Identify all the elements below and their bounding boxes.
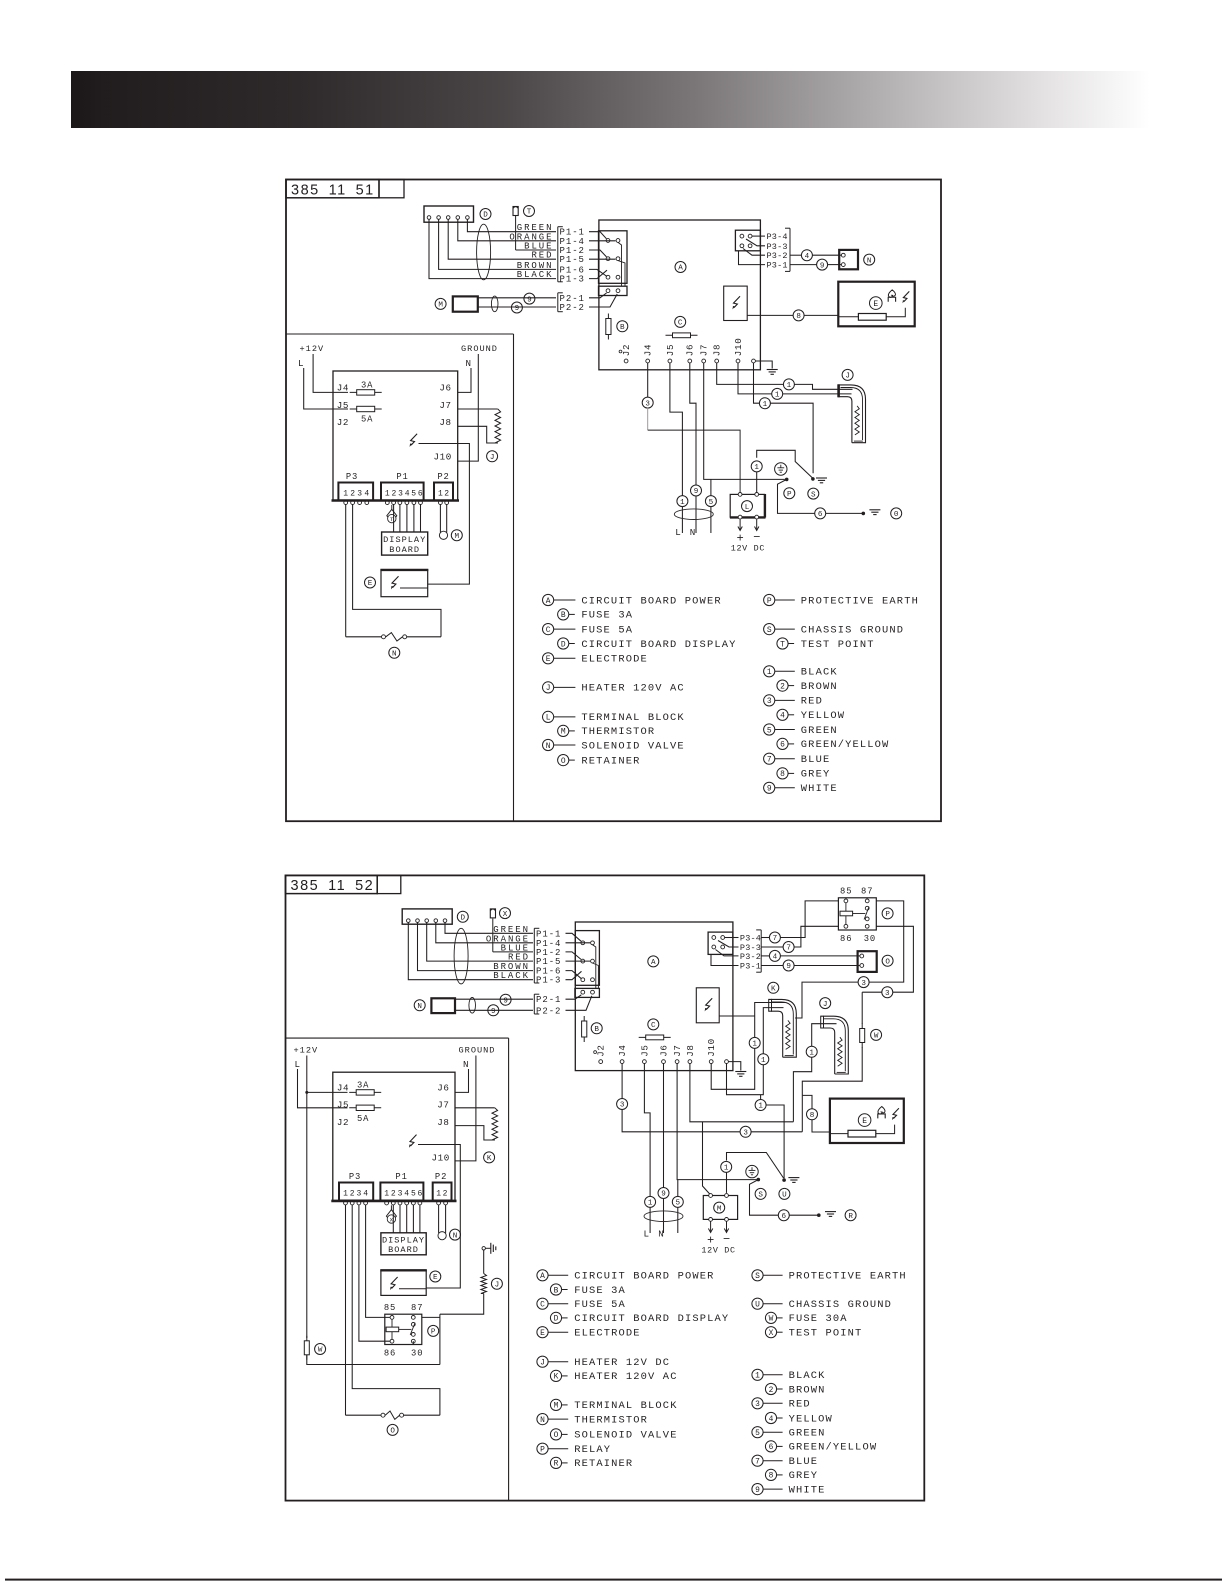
svg-text:GREEN: GREEN <box>801 725 838 737</box>
svg-text:9: 9 <box>767 785 772 794</box>
svg-text:O: O <box>885 958 890 966</box>
svg-text:1: 1 <box>438 489 443 498</box>
svg-text:J2: J2 <box>337 417 349 428</box>
svg-text:8: 8 <box>780 770 785 779</box>
svg-text:J: J <box>490 454 495 462</box>
svg-text:1: 1 <box>758 1103 763 1111</box>
svg-text:9: 9 <box>503 997 508 1005</box>
svg-text:J4: J4 <box>337 1082 349 1093</box>
svg-text:J4: J4 <box>643 344 654 356</box>
svg-text:9: 9 <box>694 488 699 496</box>
svg-text:J4: J4 <box>337 382 349 393</box>
svg-text:RED: RED <box>789 1399 811 1411</box>
svg-text:N: N <box>466 358 472 369</box>
svg-text:GREEN/YELLOW: GREEN/YELLOW <box>789 1442 878 1454</box>
svg-text:T: T <box>527 209 532 217</box>
svg-text:P2-1: P2-1 <box>536 995 561 1005</box>
svg-text:1: 1 <box>648 1200 653 1208</box>
svg-text:1: 1 <box>724 1165 729 1173</box>
svg-text:5A: 5A <box>361 415 373 425</box>
svg-text:J: J <box>823 1001 828 1009</box>
svg-text:WHITE: WHITE <box>789 1484 826 1496</box>
svg-text:P1: P1 <box>395 1172 407 1182</box>
svg-text:1: 1 <box>343 489 348 498</box>
svg-text:3: 3 <box>398 489 403 498</box>
svg-text:2: 2 <box>391 489 396 498</box>
svg-text:BLACK: BLACK <box>493 971 530 981</box>
svg-text:GREY: GREY <box>801 769 831 781</box>
svg-text:K: K <box>487 1155 492 1163</box>
svg-text:BLUE: BLUE <box>789 1456 819 1468</box>
svg-text:J5: J5 <box>665 344 676 356</box>
svg-text:C: C <box>678 320 683 328</box>
svg-text:1: 1 <box>809 1049 814 1057</box>
svg-text:N: N <box>546 742 551 751</box>
svg-text:5: 5 <box>755 1429 760 1438</box>
svg-text:8: 8 <box>769 1472 774 1481</box>
svg-text:5: 5 <box>676 1200 681 1208</box>
svg-text:E: E <box>546 655 551 664</box>
svg-text:385 11 52: 385 11 52 <box>291 878 375 894</box>
svg-text:TERMINAL BLOCK: TERMINAL BLOCK <box>581 712 684 724</box>
svg-text:P1-3: P1-3 <box>560 275 585 285</box>
svg-text:3: 3 <box>357 489 362 498</box>
svg-text:3: 3 <box>861 980 866 988</box>
svg-text:J6: J6 <box>685 344 696 356</box>
svg-text:5A: 5A <box>357 1114 369 1124</box>
svg-text:5: 5 <box>411 489 416 498</box>
svg-text:2: 2 <box>444 489 449 498</box>
svg-text:S: S <box>767 626 772 635</box>
svg-text:P2: P2 <box>437 472 449 482</box>
svg-text:P: P <box>885 911 890 919</box>
svg-text:PROTECTIVE EARTH: PROTECTIVE EARTH <box>789 1271 907 1283</box>
svg-text:BLACK: BLACK <box>517 270 554 280</box>
svg-text:X: X <box>769 1329 774 1338</box>
svg-text:N: N <box>540 1416 545 1425</box>
svg-text:D: D <box>461 914 466 922</box>
svg-text:C: C <box>540 1301 545 1310</box>
svg-text:M: M <box>561 728 566 737</box>
svg-text:J7: J7 <box>439 400 451 411</box>
svg-text:5: 5 <box>411 1189 416 1198</box>
svg-text:T: T <box>780 640 785 649</box>
svg-text:A: A <box>651 959 656 967</box>
svg-text:P2-2: P2-2 <box>560 303 585 313</box>
svg-text:J8: J8 <box>439 417 451 428</box>
svg-text:3: 3 <box>645 400 650 408</box>
svg-text:RED: RED <box>801 696 823 708</box>
svg-text:1: 1 <box>763 401 768 409</box>
svg-text:1: 1 <box>384 1189 389 1198</box>
svg-text:+: + <box>737 531 744 545</box>
svg-text:FUSE 5A: FUSE 5A <box>581 624 633 636</box>
svg-text:GROUND: GROUND <box>461 344 498 354</box>
svg-text:HEATER 12V DC: HEATER 12V DC <box>574 1357 670 1369</box>
svg-text:J7: J7 <box>437 1100 449 1111</box>
svg-text:7: 7 <box>786 945 791 953</box>
svg-text:D: D <box>483 212 488 220</box>
svg-text:U: U <box>755 1301 760 1310</box>
svg-text:J7: J7 <box>672 1044 683 1056</box>
svg-text:N: N <box>690 527 696 538</box>
svg-text:FUSE 30A: FUSE 30A <box>789 1313 848 1325</box>
svg-text:9: 9 <box>755 1486 760 1495</box>
svg-text:L: L <box>546 714 551 723</box>
svg-text:8: 8 <box>796 313 801 321</box>
svg-text:J10: J10 <box>432 1152 450 1163</box>
svg-text:M: M <box>455 533 460 541</box>
svg-text:P3-4: P3-4 <box>767 232 788 242</box>
svg-text:P1-3: P1-3 <box>536 976 561 986</box>
svg-text:P3: P3 <box>346 472 358 482</box>
svg-text:9: 9 <box>820 262 825 270</box>
svg-text:E: E <box>540 1329 545 1338</box>
svg-text:P2: P2 <box>435 1172 447 1182</box>
svg-text:385 11 51: 385 11 51 <box>291 182 375 198</box>
svg-text:7: 7 <box>773 935 778 943</box>
svg-text:M: M <box>717 1205 722 1213</box>
svg-text:P: P <box>767 597 772 606</box>
svg-text:CIRCUIT BOARD POWER: CIRCUIT BOARD POWER <box>574 1271 714 1283</box>
svg-text:BROWN: BROWN <box>801 681 838 693</box>
svg-text:3: 3 <box>755 1400 760 1409</box>
svg-text:TERMINAL BLOCK: TERMINAL BLOCK <box>574 1400 677 1412</box>
svg-text:BLUE: BLUE <box>801 754 831 766</box>
svg-text:3: 3 <box>398 1189 403 1198</box>
svg-text:RETAINER: RETAINER <box>574 1458 633 1470</box>
svg-text:85: 85 <box>840 886 852 896</box>
svg-text:B: B <box>620 324 625 332</box>
svg-text:N: N <box>417 1003 422 1011</box>
svg-text:P3-1: P3-1 <box>740 962 761 972</box>
svg-text:6: 6 <box>782 1213 787 1221</box>
svg-text:X: X <box>503 911 508 919</box>
svg-text:6: 6 <box>417 1189 422 1198</box>
svg-text:2: 2 <box>350 1189 355 1198</box>
svg-text:GREEN: GREEN <box>493 925 530 935</box>
svg-text:9: 9 <box>491 1008 496 1016</box>
svg-text:87: 87 <box>861 886 873 896</box>
svg-text:6: 6 <box>418 489 423 498</box>
svg-text:RETAINER: RETAINER <box>581 755 640 767</box>
svg-text:8: 8 <box>810 1112 815 1120</box>
svg-text:A: A <box>678 265 683 273</box>
svg-text:C: C <box>546 626 551 635</box>
svg-text:J8: J8 <box>712 344 723 356</box>
svg-text:P1: P1 <box>396 472 408 482</box>
svg-text:DISPLAY: DISPLAY <box>383 535 426 545</box>
svg-text:4: 4 <box>780 712 785 721</box>
svg-text:GREY: GREY <box>789 1470 819 1482</box>
svg-text:6: 6 <box>780 741 785 750</box>
svg-text:4: 4 <box>404 1189 409 1198</box>
svg-text:M: M <box>554 1402 559 1411</box>
svg-text:TEST POINT: TEST POINT <box>801 639 875 651</box>
svg-text:C: C <box>651 1022 656 1030</box>
svg-text:12V DC: 12V DC <box>731 544 765 554</box>
svg-text:+: + <box>707 1233 714 1247</box>
svg-text:CIRCUIT BOARD DISPLAY: CIRCUIT BOARD DISPLAY <box>574 1313 729 1325</box>
svg-text:6: 6 <box>818 511 823 519</box>
svg-text:P3-2: P3-2 <box>740 952 761 962</box>
svg-text:4: 4 <box>773 954 778 962</box>
svg-text:5: 5 <box>709 499 714 507</box>
svg-text:D: D <box>554 1315 559 1324</box>
svg-text:P: P <box>787 491 792 499</box>
svg-text:DISPLAY: DISPLAY <box>382 1236 425 1246</box>
svg-text:BLACK: BLACK <box>789 1370 826 1382</box>
svg-text:3A: 3A <box>361 381 373 391</box>
svg-text:1: 1 <box>752 1041 757 1049</box>
svg-text:4: 4 <box>364 489 369 498</box>
svg-text:SOLENOID VALVE: SOLENOID VALVE <box>581 740 684 752</box>
svg-text:CHASSIS GROUND: CHASSIS GROUND <box>789 1299 892 1311</box>
svg-text:J6: J6 <box>658 1044 669 1056</box>
svg-text:L: L <box>295 1059 301 1070</box>
svg-text:J6: J6 <box>439 382 451 393</box>
svg-text:2: 2 <box>769 1386 774 1395</box>
svg-text:K: K <box>771 986 776 994</box>
svg-text:P1-1: P1-1 <box>536 929 561 939</box>
svg-text:RELAY: RELAY <box>574 1444 611 1456</box>
svg-text:L: L <box>675 527 681 538</box>
svg-text:BROWN: BROWN <box>789 1384 826 1396</box>
svg-text:A: A <box>540 1272 545 1281</box>
svg-text:CHASSIS GROUND: CHASSIS GROUND <box>801 624 904 636</box>
svg-text:5: 5 <box>767 726 772 735</box>
svg-text:3A: 3A <box>357 1081 369 1091</box>
svg-text:7: 7 <box>767 756 772 765</box>
svg-text:R: R <box>554 1460 559 1469</box>
svg-text:THERMISTOR: THERMISTOR <box>581 726 655 738</box>
svg-text:7: 7 <box>755 1458 760 1467</box>
svg-text:M: M <box>438 302 443 310</box>
svg-text:1: 1 <box>436 1189 441 1198</box>
svg-text:9: 9 <box>786 963 791 971</box>
svg-text:J2: J2 <box>621 344 632 356</box>
svg-text:30: 30 <box>411 1348 423 1358</box>
svg-text:RED: RED <box>531 251 553 261</box>
svg-text:ELECTRODE: ELECTRODE <box>581 654 647 666</box>
svg-text:J: J <box>495 1281 500 1289</box>
svg-text:YELLOW: YELLOW <box>801 710 845 722</box>
svg-text:L: L <box>644 1228 650 1239</box>
svg-text:P3-4: P3-4 <box>740 934 761 944</box>
svg-text:1: 1 <box>343 1189 348 1198</box>
svg-text:J10: J10 <box>706 1038 717 1057</box>
svg-text:GREEN: GREEN <box>789 1428 826 1440</box>
svg-text:CIRCUIT BOARD POWER: CIRCUIT BOARD POWER <box>581 595 721 607</box>
svg-text:2: 2 <box>780 682 785 691</box>
svg-text:P3-1: P3-1 <box>767 261 788 271</box>
svg-text:PROTECTIVE EARTH: PROTECTIVE EARTH <box>801 595 919 607</box>
svg-text:N: N <box>867 257 872 265</box>
svg-text:J5: J5 <box>639 1044 650 1056</box>
svg-text:BLACK: BLACK <box>801 667 838 679</box>
svg-text:E: E <box>433 1274 438 1282</box>
svg-text:−: − <box>753 530 760 544</box>
svg-text:N: N <box>658 1228 664 1239</box>
svg-text:87: 87 <box>411 1303 423 1313</box>
svg-text:RED: RED <box>508 953 530 963</box>
svg-text:86: 86 <box>840 934 852 944</box>
svg-text:BOARD: BOARD <box>388 1245 419 1255</box>
svg-text:A: A <box>546 597 551 606</box>
svg-text:GROUND: GROUND <box>459 1046 496 1056</box>
svg-text:W: W <box>318 1347 323 1355</box>
svg-text:J10: J10 <box>733 338 744 357</box>
svg-text:6: 6 <box>769 1443 774 1452</box>
svg-text:O: O <box>390 1428 395 1436</box>
svg-text:P2-2: P2-2 <box>536 1006 561 1016</box>
svg-text:O: O <box>554 1431 559 1440</box>
svg-text:P3: P3 <box>349 1172 361 1182</box>
svg-text:B: B <box>594 1026 599 1034</box>
svg-text:S: S <box>811 491 816 499</box>
svg-text:P: P <box>540 1446 545 1455</box>
svg-text:E: E <box>368 580 373 588</box>
svg-text:S: S <box>758 1192 763 1200</box>
svg-text:3: 3 <box>885 990 890 998</box>
svg-text:SOLENOID VALVE: SOLENOID VALVE <box>574 1430 677 1442</box>
svg-text:WHITE: WHITE <box>801 783 838 795</box>
svg-text:ELECTRODE: ELECTRODE <box>574 1328 640 1340</box>
svg-text:L: L <box>745 504 750 512</box>
svg-text:FUSE 5A: FUSE 5A <box>574 1299 626 1311</box>
svg-text:FUSE 3A: FUSE 3A <box>581 610 633 622</box>
svg-text:86: 86 <box>384 1348 396 1358</box>
svg-text:R: R <box>848 1213 853 1221</box>
svg-text:4: 4 <box>363 1189 368 1198</box>
svg-text:1: 1 <box>787 382 792 390</box>
svg-text:B: B <box>554 1286 559 1295</box>
svg-text:J8: J8 <box>437 1117 449 1128</box>
svg-text:BOARD: BOARD <box>389 545 420 555</box>
svg-text:YELLOW: YELLOW <box>789 1413 833 1425</box>
svg-text:N: N <box>453 1232 458 1240</box>
svg-text:1: 1 <box>385 489 390 498</box>
svg-text:HEATER 120V AC: HEATER 120V AC <box>581 683 684 695</box>
svg-text:E: E <box>862 1117 867 1126</box>
svg-text:J5: J5 <box>337 400 349 411</box>
svg-text:9: 9 <box>515 305 520 313</box>
svg-text:1: 1 <box>680 499 685 507</box>
svg-text:J2: J2 <box>337 1117 349 1128</box>
svg-text:FUSE 3A: FUSE 3A <box>574 1285 626 1297</box>
svg-text:HEATER 120V AC: HEATER 120V AC <box>574 1371 677 1383</box>
svg-text:J7: J7 <box>699 344 710 356</box>
svg-text:U: U <box>782 1192 787 1200</box>
svg-text:P: P <box>431 1329 436 1337</box>
svg-text:J2: J2 <box>596 1044 607 1056</box>
svg-text:J6: J6 <box>437 1082 449 1093</box>
svg-text:12V DC: 12V DC <box>701 1246 735 1256</box>
svg-text:1: 1 <box>755 1372 760 1381</box>
svg-text:N: N <box>463 1059 469 1070</box>
svg-text:1: 1 <box>761 1057 766 1065</box>
svg-text:4: 4 <box>405 489 410 498</box>
svg-text:4: 4 <box>769 1415 774 1424</box>
svg-text:TEST POINT: TEST POINT <box>789 1328 863 1340</box>
svg-text:THERMISTOR: THERMISTOR <box>574 1414 648 1426</box>
svg-text:0: 0 <box>894 511 899 519</box>
svg-text:2: 2 <box>350 489 355 498</box>
svg-text:J8: J8 <box>685 1044 696 1056</box>
svg-text:J10: J10 <box>434 452 452 463</box>
svg-text:S: S <box>755 1272 760 1281</box>
svg-text:4: 4 <box>805 253 810 261</box>
svg-text:1: 1 <box>754 464 759 472</box>
svg-text:2: 2 <box>443 1189 448 1198</box>
svg-text:J: J <box>546 684 551 693</box>
svg-text:E: E <box>873 300 878 309</box>
svg-text:P1-5: P1-5 <box>536 957 561 967</box>
svg-text:−: − <box>723 1232 730 1246</box>
svg-text:2: 2 <box>391 1189 396 1198</box>
svg-text:85: 85 <box>384 1303 396 1313</box>
svg-text:+12V: +12V <box>294 1046 319 1056</box>
svg-text:CIRCUIT BOARD DISPLAY: CIRCUIT BOARD DISPLAY <box>581 639 736 651</box>
svg-text:30: 30 <box>864 934 876 944</box>
svg-text:K: K <box>554 1373 559 1382</box>
svg-text:J: J <box>540 1359 545 1368</box>
svg-text:J: J <box>845 373 850 381</box>
svg-text:W: W <box>874 1033 879 1041</box>
svg-text:1: 1 <box>767 668 772 677</box>
svg-text:9: 9 <box>527 296 532 304</box>
svg-text:J5: J5 <box>337 1100 349 1111</box>
svg-text:B: B <box>561 611 566 620</box>
svg-text:P1-5: P1-5 <box>560 255 585 265</box>
svg-text:N: N <box>392 650 397 658</box>
svg-text:3: 3 <box>356 1189 361 1198</box>
svg-text:L: L <box>298 358 304 369</box>
svg-text:9: 9 <box>661 1191 666 1199</box>
svg-text:3: 3 <box>620 1102 625 1110</box>
svg-text:3: 3 <box>743 1130 748 1138</box>
svg-text:D: D <box>561 640 566 649</box>
svg-text:+12V: +12V <box>300 344 325 354</box>
svg-text:O: O <box>561 757 566 766</box>
svg-text:J4: J4 <box>617 1044 628 1056</box>
svg-text:1: 1 <box>775 392 780 400</box>
svg-text:W: W <box>769 1315 774 1324</box>
svg-text:3: 3 <box>767 697 772 706</box>
svg-text:GREEN/YELLOW: GREEN/YELLOW <box>801 739 890 751</box>
